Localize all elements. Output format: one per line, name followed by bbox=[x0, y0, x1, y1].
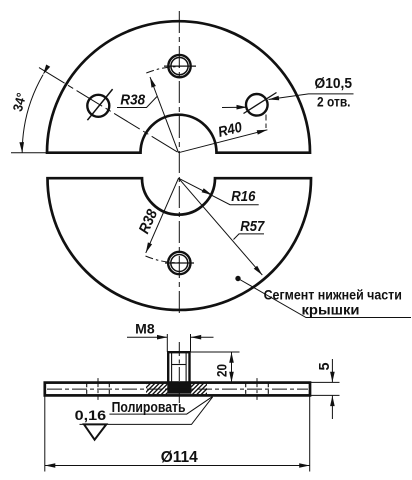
svg-text:крышки: крышки bbox=[302, 303, 360, 319]
svg-text:0,16: 0,16 bbox=[75, 407, 107, 423]
svg-text:R16: R16 bbox=[231, 188, 256, 205]
svg-text:20: 20 bbox=[214, 364, 230, 377]
svg-text:R57: R57 bbox=[240, 218, 265, 235]
svg-text:Полировать: Полировать bbox=[112, 399, 186, 416]
svg-text:R38: R38 bbox=[136, 206, 162, 236]
svg-text:34°: 34° bbox=[10, 91, 29, 113]
svg-text:R38: R38 bbox=[120, 92, 145, 109]
svg-text:R40: R40 bbox=[217, 120, 244, 141]
svg-text:2 отв.: 2 отв. bbox=[317, 95, 351, 110]
svg-text:М8: М8 bbox=[135, 320, 155, 336]
svg-text:Сегмент нижней части: Сегмент нижней части bbox=[264, 288, 402, 304]
svg-text:5: 5 bbox=[317, 362, 333, 370]
svg-text:Ø10,5: Ø10,5 bbox=[315, 75, 353, 92]
svg-text:Ø114: Ø114 bbox=[161, 449, 198, 466]
